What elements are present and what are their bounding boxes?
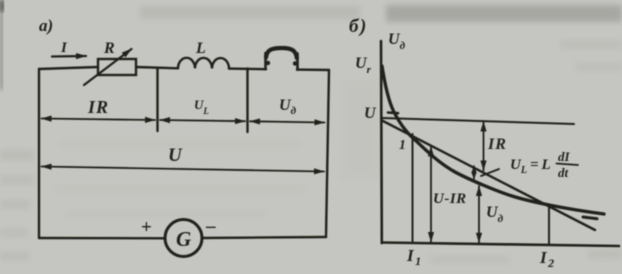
wire bottom left segment [39,237,165,240]
node tick between R and L [156,68,158,131]
svg-text:IR: IR [487,136,507,153]
svg-text:a): a) [39,16,53,35]
Ud arrow [478,186,480,243]
svg-text:G: G [176,227,191,251]
inductor L [178,58,229,69]
current arrow I [52,55,86,58]
svg-text:dI: dI [558,149,571,164]
wire right vertical [326,70,329,237]
svg-text:U-IR: U-IR [433,191,467,207]
U level horizontal line [382,118,574,124]
wire arc to right corner [297,68,329,71]
svg-text:U: U [364,105,377,122]
svg-text:I: I [60,40,68,56]
leader line [481,169,499,176]
wire bottom right segment [202,237,326,238]
svg-text:dt: dt [558,165,569,180]
svg-text:IR: IR [87,97,109,117]
dimension arrow IR [42,119,156,121]
node tick between L and arc [246,69,248,133]
wire resistor to inductor [136,67,178,68]
dimension arrow U [42,167,325,172]
I2 vertical line [548,206,550,245]
x-axis [382,243,619,247]
svg-text:+: + [141,217,152,238]
IR arrow [483,122,485,171]
arc characteristic curve [382,66,604,214]
wire inductor to arc [229,67,266,70]
y-axis [380,41,383,243]
svg-text:L: L [195,40,206,57]
svg-text:б): б) [349,16,368,37]
generator G [165,220,202,257]
wire top left segment [39,67,98,69]
dimension arrow UL [160,120,245,121]
U-IR arrow [430,147,432,243]
dimension arrow Ud [250,121,325,122]
svg-text:1: 1 [399,137,406,152]
load line U-IR [382,121,595,231]
I1 vertical line [412,134,414,243]
arc gap device (electric arc) [264,53,267,69]
wire left vertical [38,69,40,238]
UL gap arrow [473,166,475,179]
svg-text:U: U [168,145,183,166]
svg-text:–: – [205,216,216,237]
svg-text:R: R [103,40,115,57]
resistor R (rheostat) [98,59,136,75]
dash mark near right intersection [583,217,597,219]
